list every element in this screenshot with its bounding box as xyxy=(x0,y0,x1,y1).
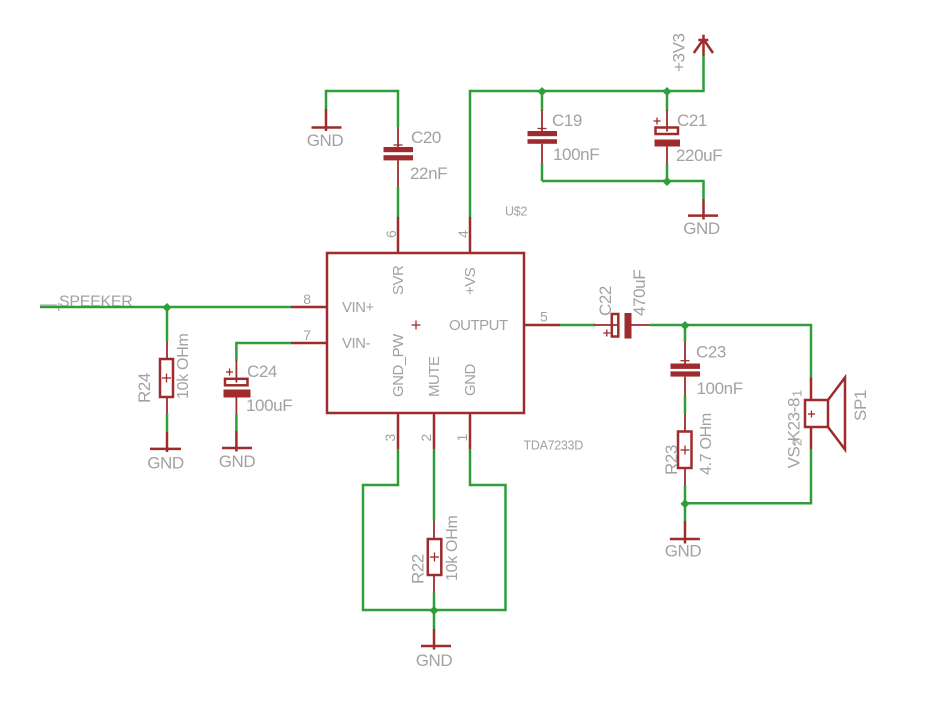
svg-text:10k OHm: 10k OHm xyxy=(175,334,192,399)
svg-text:6: 6 xyxy=(383,230,399,238)
pin 2 MUTE xyxy=(433,413,436,449)
capacitor C24 (polarized) xyxy=(224,360,293,415)
wire: C24 to GND xyxy=(235,414,238,431)
svg-text:100nF: 100nF xyxy=(553,145,599,164)
svg-text:C21: C21 xyxy=(677,111,707,130)
svg-text:R22: R22 xyxy=(409,554,428,584)
ground GND (below R23) xyxy=(665,521,702,561)
wire: C23 bottom to R23 top xyxy=(684,395,687,414)
svg-text:100nF: 100nF xyxy=(697,379,743,398)
svg-text:5: 5 xyxy=(540,309,548,325)
resistor R23 xyxy=(662,413,715,486)
svg-text:C22: C22 xyxy=(596,286,615,316)
junction: R24 top xyxy=(163,303,172,312)
svg-text:TDA7233D: TDA7233D xyxy=(524,439,584,453)
svg-text:4.7 OHm: 4.7 OHm xyxy=(698,413,715,475)
pin 4 +VS xyxy=(469,217,472,253)
pin 1 GND xyxy=(469,413,472,449)
resistor R24 xyxy=(135,334,192,414)
svg-text:470uF: 470uF xyxy=(630,270,649,316)
junction: C21 bottom at rail xyxy=(663,177,672,186)
svg-text:GND_PW: GND_PW xyxy=(390,333,407,397)
svg-text:VIN-: VIN- xyxy=(342,335,371,352)
svg-text:2: 2 xyxy=(418,434,434,442)
ground GND (below R24) xyxy=(147,432,184,473)
wire: pin 2 down to R22 xyxy=(433,449,436,521)
svg-text:C24: C24 xyxy=(247,362,277,381)
wire: R22 bottom to junction xyxy=(433,593,436,611)
capacitor C23 xyxy=(671,342,743,398)
svg-text:C20: C20 xyxy=(411,128,441,147)
wire: pin 1 loop xyxy=(434,449,506,610)
svg-text:220uF: 220uF xyxy=(676,146,722,165)
ground GND (below C24) xyxy=(219,431,256,471)
svg-text:GND: GND xyxy=(665,542,702,561)
svg-text:2: 2 xyxy=(790,439,805,446)
svg-text:+3V3: +3V3 xyxy=(670,33,689,72)
capacitor C22 (polarized, horizontal) xyxy=(594,270,650,339)
svg-text:C23: C23 xyxy=(696,343,726,362)
svg-text:GND: GND xyxy=(147,454,184,473)
wire: bottom horizontal to speaker xyxy=(685,449,811,503)
svg-text:OUTPUT: OUTPUT xyxy=(449,317,508,334)
svg-text:GND: GND xyxy=(683,219,720,238)
wire: R24 to GND xyxy=(166,414,169,433)
svg-text:SP1: SP1 xyxy=(851,390,870,421)
capacitor C21 (polarized) xyxy=(654,110,723,165)
wire: pin 5 to C22 xyxy=(560,324,595,327)
svg-text:VS-K23-8: VS-K23-8 xyxy=(785,398,804,469)
wire: junction down to C23 xyxy=(684,325,687,342)
wire: top horizontal rail pin4 to +3V3 xyxy=(470,56,704,217)
wire: C22 to speaker corner xyxy=(650,325,811,378)
pin 5 OUTPUT xyxy=(524,324,560,327)
svg-text:4: 4 xyxy=(455,230,471,238)
pin 6 SVR xyxy=(397,217,400,253)
wire: rail to C21 top xyxy=(666,91,669,111)
svg-text:GND: GND xyxy=(462,364,479,397)
pin 7 VIN- xyxy=(291,342,327,345)
wire: C21 bottom to bottom rail xyxy=(666,163,669,181)
wire: bottom rail C19 to GND corner xyxy=(542,181,704,199)
junction: bottom loop xyxy=(430,606,439,615)
svg-text:SVR: SVR xyxy=(390,265,407,295)
wire: top-left horizontal GND to C20 xyxy=(326,91,398,127)
ground GND (top-left, near C20) xyxy=(307,109,344,150)
junction: C19 top at rail xyxy=(538,87,547,96)
wire: junction down to R24 xyxy=(166,307,169,342)
junction: R23 bottom xyxy=(681,499,690,508)
svg-text:+VS: +VS xyxy=(462,267,479,295)
wire: C19 bottom to bottom rail xyxy=(541,163,544,181)
svg-text:22nF: 22nF xyxy=(410,164,447,183)
svg-text:100uF: 100uF xyxy=(246,396,292,415)
svg-text:R24: R24 xyxy=(135,373,154,403)
wire: rail to C19 top xyxy=(541,91,544,111)
junction: C23 top xyxy=(681,321,690,330)
junction: C21 top at rail xyxy=(663,87,672,96)
svg-text:R23: R23 xyxy=(662,445,681,475)
pin 8 VIN+ xyxy=(291,306,327,309)
svg-text:3: 3 xyxy=(382,434,398,442)
svg-text:1: 1 xyxy=(454,434,470,442)
capacitor C20 xyxy=(384,127,448,187)
pin 3 GND_PW xyxy=(397,413,400,449)
op-amp U$2 TDA7233D IC box xyxy=(327,253,524,413)
svg-text:8: 8 xyxy=(303,291,311,307)
svg-text:GND: GND xyxy=(416,651,453,670)
svg-text:1: 1 xyxy=(790,390,805,397)
supply +3V3 xyxy=(670,33,714,72)
svg-text:VIN+: VIN+ xyxy=(342,299,375,316)
wire: R23 bottom to junction xyxy=(684,486,687,503)
wire SPEEKER to pin 8 xyxy=(40,306,291,309)
ground GND (bottom) xyxy=(416,629,453,670)
ground GND (below C21 rail) xyxy=(683,199,720,238)
svg-text:GND: GND xyxy=(219,452,256,471)
speaker SP1 xyxy=(785,378,871,469)
wire: pin 3 loop xyxy=(363,449,434,610)
svg-text:C19: C19 xyxy=(552,111,582,130)
wire: junction to GND xyxy=(684,503,687,521)
svg-text:U$2: U$2 xyxy=(505,205,527,219)
wire: C24 top to pin 7 xyxy=(236,343,291,361)
wire: C20 bottom to pin 6 xyxy=(397,187,400,217)
svg-text:GND: GND xyxy=(307,131,344,150)
svg-text:MUTE: MUTE xyxy=(426,356,443,397)
IC origin cross xyxy=(412,321,421,330)
svg-text:10k OHm: 10k OHm xyxy=(444,516,461,581)
net label SPEEKER xyxy=(40,294,133,312)
resistor R22 xyxy=(409,516,462,593)
svg-text:7: 7 xyxy=(303,327,311,343)
capacitor C19 xyxy=(528,110,600,164)
wire: junction to GND xyxy=(433,610,436,629)
